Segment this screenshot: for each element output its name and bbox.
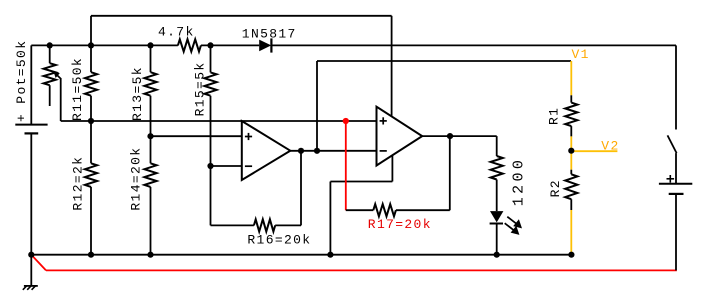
svg-text:R2: R2 [548,179,563,197]
svg-text:4.7k: 4.7k [158,24,195,39]
svg-text:R16=20k: R16=20k [247,232,311,247]
svg-text:V1: V1 [572,47,590,62]
svg-text:R11=50k: R11=50k [70,57,85,121]
svg-text:R1: R1 [546,107,561,125]
svg-text:1200: 1200 [511,157,528,207]
svg-text:R15=5k: R15=5k [192,61,207,116]
svg-text:R17=20k: R17=20k [368,217,432,232]
svg-text:+ Pot=50k: + Pot=50k [14,40,29,122]
svg-text:R13=5k: R13=5k [130,66,145,121]
svg-text:R14=20k: R14=20k [128,147,143,211]
svg-text:V2: V2 [601,138,619,153]
svg-text:1N5817: 1N5817 [242,26,297,41]
svg-text:R12=2k: R12=2k [71,156,86,211]
